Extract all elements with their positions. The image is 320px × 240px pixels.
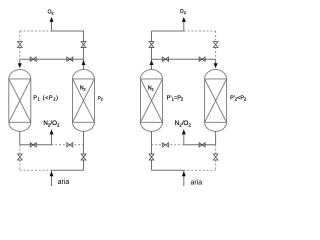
- svg-text:P’2<P2: P’2<P2: [230, 95, 247, 101]
- svg-text:O2: O2: [180, 9, 186, 15]
- svg-text:O2: O2: [48, 10, 54, 16]
- svg-text:N2: N2: [148, 86, 154, 92]
- svg-text:P’1=P2: P’1=P2: [167, 95, 184, 101]
- svg-text:N2/O2: N2/O2: [175, 120, 192, 127]
- svg-text:N2: N2: [80, 86, 86, 92]
- svg-text:aria: aria: [58, 179, 70, 186]
- svg-text:N2/O2: N2/O2: [43, 120, 60, 127]
- svg-text:aria: aria: [191, 179, 203, 186]
- svg-text:P1 (<P2): P1 (<P2): [33, 96, 58, 102]
- svg-text:P2: P2: [98, 95, 103, 101]
